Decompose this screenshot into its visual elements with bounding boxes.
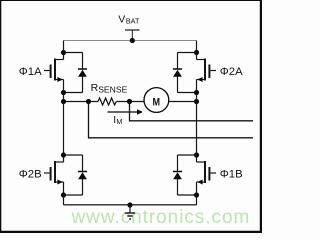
transistor Phi2B (bottom-left MOSFET) [44,161,64,183]
wire motor row left [64,101,99,103]
node ground junction [127,202,132,207]
wire VBAT stem [131,30,133,41]
diode D3 (bottom-left body diode) [78,172,87,180]
node source of Phi1A [61,90,66,95]
node D bottom-right [194,152,199,157]
node source of Phi1B [194,192,199,197]
svg-text:Φ1A: Φ1A [19,66,42,78]
current arrow IM [108,109,144,115]
node C bottom-left [61,152,66,157]
wire bottom ground rail [64,204,197,206]
svg-text:M: M [116,117,122,126]
wire right column [196,41,198,206]
diode D4 branch wires (bottom-right) [178,155,197,195]
diode D3 branch wires (bottom-left) [64,155,83,195]
transistor Phi1B source arrow [197,180,202,185]
label Phi2B [19,169,42,181]
wire motor row middle [116,101,144,103]
junction dot VBAT rail [130,38,135,43]
label Phi1A [19,66,42,78]
label Phi2A [220,66,243,78]
transistor Phi1A source arrow [57,77,62,82]
motor M1 [144,88,169,113]
svg-text:BAT: BAT [126,16,140,25]
svg-text:Φ1B: Φ1B [220,169,243,181]
svg-text:V: V [118,14,125,26]
node sense tap left [86,99,91,104]
ground [125,205,135,219]
border frame [0,0,262,233]
diode D1 branch wires (top-left) [64,53,83,93]
diode D4 (bottom-right body diode) [173,172,182,180]
svg-text:Φ2A: Φ2A [220,66,243,78]
watermark www.cntronics.com [71,207,251,228]
VBAT terminal bar [125,29,140,31]
node source of Phi2B [61,192,66,197]
diode D2 branch wires (top-right) [178,53,197,93]
node source of Phi2A [194,90,199,95]
wire top VBAT rail [64,40,197,42]
resistor RSENSE [98,98,116,105]
svg-text:M: M [152,97,160,109]
node sense tap right [127,99,132,104]
node B top-right [194,50,199,55]
svg-text:Φ2B: Φ2B [19,169,42,181]
transistor Phi2A (top-right MOSFET) [197,59,217,81]
node motor right junction [194,99,199,104]
label Phi1B [220,169,243,181]
svg-text:SENSE: SENSE [98,85,127,95]
label IM [113,114,122,126]
label VBAT [118,14,140,26]
diode D2 (top-right body diode) [173,69,182,77]
transistor Phi2B source arrow [57,180,62,185]
transistor Phi1B (bottom-right MOSFET) [197,161,217,183]
svg-text:www.cntronics.com: www.cntronics.com [71,207,251,228]
wire sense line right tap [130,102,254,121]
wire sense line left tap [89,102,254,138]
diode D1 (top-left body diode) [78,69,87,77]
label RSENSE [91,82,128,94]
wire motor row right [169,101,197,103]
node A top-left [61,50,66,55]
transistor Phi1A (top-left MOSFET) [44,59,64,81]
wire left column upper [63,41,65,206]
transistor Phi2A source arrow [197,77,202,82]
node row left junction [61,99,66,104]
